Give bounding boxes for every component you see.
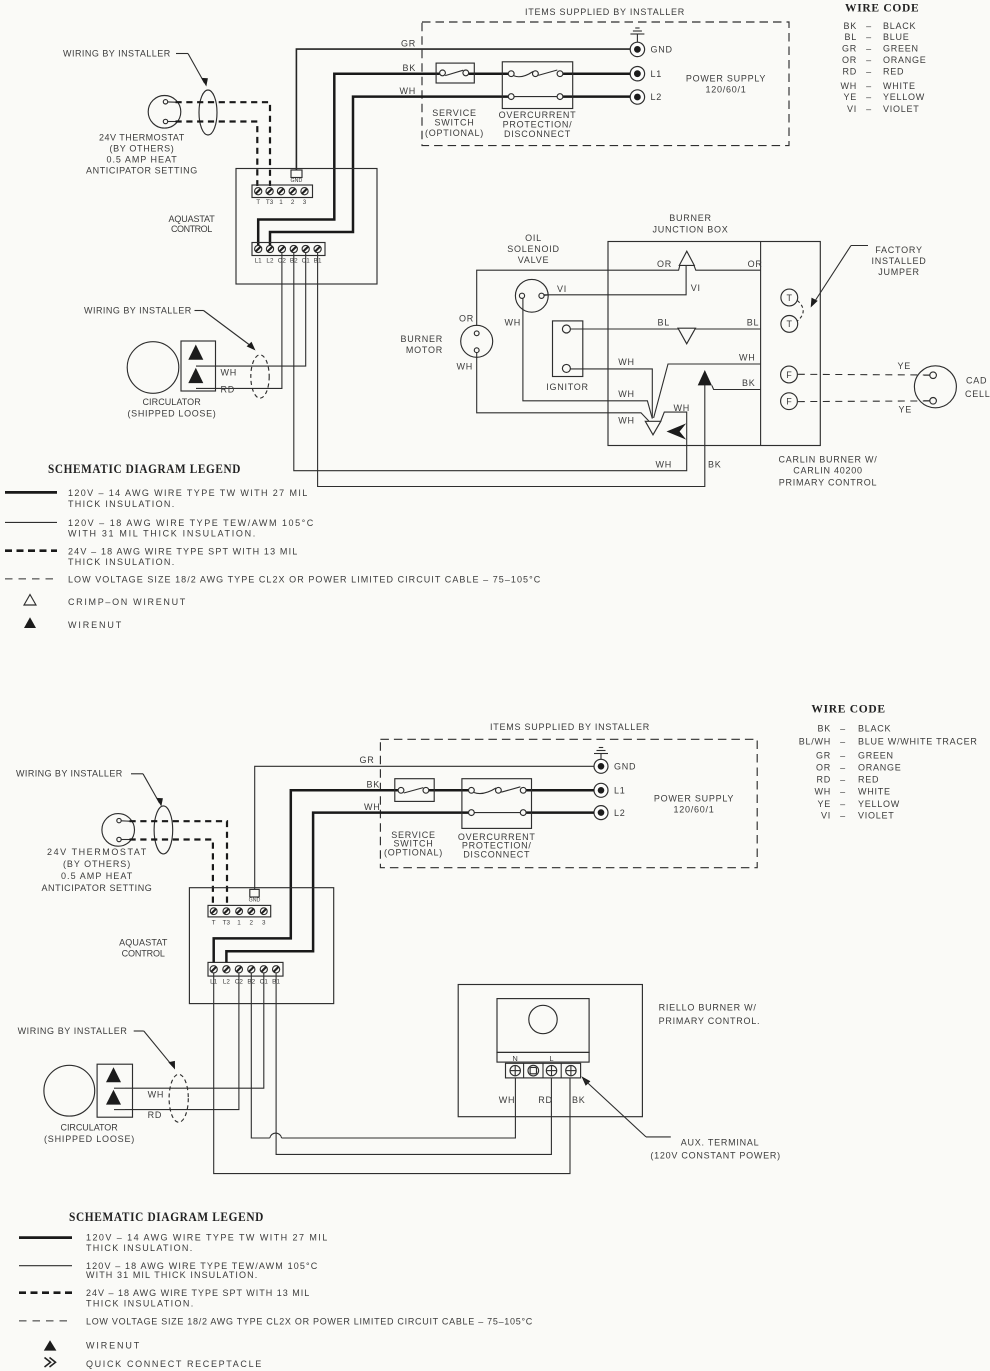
svg-text:GND: GND — [291, 178, 303, 184]
svg-text:YE: YE — [898, 405, 912, 415]
wire WH : ignitor to big wirenut (top) — [570, 369, 652, 419]
svg-text:T: T — [787, 319, 793, 329]
svg-text:120V – 18 AWG WIRE TYPE TEW/AW: 120V – 18 AWG WIRE TYPE TEW/AWM 105°C — [68, 518, 314, 528]
svg-text:GND: GND — [614, 762, 636, 772]
svg-text:L2: L2 — [614, 808, 626, 818]
crimp-on wirenut (big open triangle) WH junction (top) — [645, 421, 661, 435]
svg-text:LOW VOLTAGE SIZE 18/2 AWG TYPE: LOW VOLTAGE SIZE 18/2 AWG TYPE CL2X OR P… — [68, 575, 541, 585]
upper terminal strip T T3 1 2 3 (top) — [252, 185, 313, 198]
svg-text:WHITE: WHITE — [883, 81, 916, 91]
wire BK (bottom) — [214, 790, 398, 963]
circulator (bottom) — [44, 1065, 95, 1116]
svg-text:VIOLET: VIOLET — [858, 811, 895, 821]
legend sample: low voltage dashed thin — [5, 578, 57, 580]
cable ellipse (bottom circulator) — [169, 1074, 188, 1122]
svg-text:WHITE: WHITE — [858, 786, 891, 796]
svg-text:CRIMP–ON WIRENUT: CRIMP–ON WIRENUT — [68, 597, 186, 607]
svg-text:PROTECTION/: PROTECTION/ — [503, 120, 573, 130]
svg-text:WH: WH — [364, 802, 381, 812]
svg-text:GND: GND — [249, 898, 261, 904]
legend symbol: crimp-on wirenut (open triangle) — [24, 595, 36, 606]
terminal screw L (RD) — [546, 1065, 556, 1075]
svg-text:THICK INSULATION.: THICK INSULATION. — [68, 557, 175, 567]
wirenut (filled) on circulator RD (top) — [188, 368, 203, 383]
svg-text:WH: WH — [815, 786, 832, 796]
svg-text:WIRENUT: WIRENUT — [86, 1341, 140, 1351]
svg-text:AQUASTAT: AQUASTAT — [119, 937, 168, 947]
svg-text:–: – — [866, 92, 872, 102]
svg-text:OR: OR — [748, 259, 763, 269]
svg-text:BLACK: BLACK — [883, 21, 916, 31]
svg-text:(OPTIONAL): (OPTIONAL) — [425, 128, 484, 138]
wire GR (top) : aquastat GND to terminal GND — [296, 49, 630, 170]
terminal L2 (top) — [630, 90, 644, 104]
dashed 24V wire to T3 (bottom) — [130, 821, 228, 906]
burner junction box (top) — [608, 242, 820, 446]
quick connect receptacle (filled arrow, left) at WH wirenut (top) — [667, 423, 687, 439]
wire B2 long WH run to burner junction (top) — [294, 253, 687, 471]
label: AUX. TERMINAL (120V CONSTANT POWER) with leader arrow — [581, 1076, 590, 1086]
wire C1 to circulator WH (top) — [216, 253, 306, 367]
svg-text:BK: BK — [708, 460, 722, 470]
wire WH (bottom) — [226, 813, 468, 963]
wirenut (filled) circulator RD (bottom) — [106, 1090, 121, 1105]
svg-text:SWITCH: SWITCH — [435, 118, 475, 128]
ground symbol (bottom) — [594, 748, 608, 760]
svg-text:120/60/1: 120/60/1 — [705, 85, 746, 95]
svg-text:L1: L1 — [255, 258, 263, 265]
GND stub terminal on aquastat (bottom) — [250, 889, 259, 897]
svg-text:YELLOW: YELLOW — [883, 92, 925, 102]
svg-text:JUMPER: JUMPER — [878, 267, 920, 277]
wirenut (filled) circulator WH (bottom) — [106, 1067, 121, 1082]
svg-text:24V THERMOSTAT: 24V THERMOSTAT — [47, 847, 147, 857]
terminal GND (top) — [630, 42, 644, 56]
service switch (bottom) — [395, 779, 434, 802]
crimp-on wirenut (open triangle, down) BL junction (top) — [678, 328, 696, 344]
cable ellipse (top circulator) — [251, 355, 269, 398]
svg-text:QUICK CONNECT RECEPTACLE: QUICK CONNECT RECEPTACLE — [86, 1359, 262, 1369]
svg-text:F: F — [786, 397, 792, 407]
svg-text:1: 1 — [279, 199, 283, 206]
legend sample: 120V 14 AWG thick line — [5, 491, 57, 494]
svg-text:BK: BK — [366, 780, 380, 790]
svg-text:YE: YE — [897, 361, 911, 371]
aquastat control box (bottom) — [189, 888, 333, 1004]
svg-text:T: T — [787, 293, 793, 303]
svg-text:–: – — [840, 750, 846, 760]
svg-text:120V – 14 AWG WIRE TYPE TW WIT: 120V – 14 AWG WIRE TYPE TW WITH 27 MIL — [86, 1233, 328, 1243]
svg-text:VALVE: VALVE — [518, 255, 549, 265]
svg-text:RD: RD — [817, 774, 832, 784]
svg-text:GR: GR — [816, 750, 831, 760]
svg-text:VI: VI — [557, 284, 567, 294]
wire WH (top) : aquastat L2 to overcurrent to L2 — [270, 97, 508, 245]
svg-text:RD: RD — [221, 385, 236, 395]
svg-text:SCHEMATIC DIAGRAM LEGEND: SCHEMATIC DIAGRAM LEGEND — [69, 1210, 264, 1224]
svg-text:RD: RD — [843, 66, 858, 76]
svg-text:L2: L2 — [651, 92, 663, 102]
svg-text:AQUASTAT: AQUASTAT — [169, 214, 216, 224]
svg-text:(SHIPPED LOOSE): (SHIPPED LOOSE) — [44, 1134, 135, 1144]
terminal L1 (top) — [630, 67, 644, 81]
svg-text:–: – — [840, 799, 846, 809]
wire OR : burner motor to junction (top) — [477, 265, 680, 326]
svg-text:IGNITOR: IGNITOR — [546, 382, 589, 392]
wire VI : oil solenoid valve to OR wirenut (top) — [544, 266, 686, 295]
svg-text:BK: BK — [843, 21, 857, 31]
Riello terminal block N - L aux — [506, 1063, 581, 1078]
svg-text:GREEN: GREEN — [883, 43, 919, 53]
upper terminal strip T T3 1 2 3 (bottom) — [208, 905, 271, 917]
wire C2 to circulator RD (top) — [216, 253, 282, 389]
svg-text:CIRCULATOR: CIRCULATOR — [143, 397, 202, 407]
lower terminal strip L1 L2 C2 B2 C1 B1 (bottom) — [208, 962, 283, 976]
svg-text:OR: OR — [842, 55, 857, 65]
svg-text:WITH 31 MIL THICK INSULATION.: WITH 31 MIL THICK INSULATION. — [86, 1270, 258, 1280]
svg-text:CONTROL: CONTROL — [171, 224, 213, 234]
terminal F (upper) on primary control (top) — [781, 366, 798, 383]
svg-text:L1: L1 — [614, 786, 626, 796]
svg-text:ORANGE: ORANGE — [858, 762, 902, 772]
svg-text:N: N — [512, 1054, 518, 1063]
svg-text:WH: WH — [457, 362, 474, 372]
cad cell (top) — [914, 366, 956, 408]
terminal T (lower) on primary control (top) — [781, 316, 798, 333]
svg-text:POWER SUPPLY: POWER SUPPLY — [654, 794, 734, 804]
wire GR (bottom) — [255, 766, 594, 889]
wire L1 to Riello aux BK terminal (bottom) — [214, 973, 570, 1174]
terminal T (upper) on primary control (top) — [781, 289, 798, 306]
svg-text:0.5 AMP HEAT: 0.5 AMP HEAT — [61, 871, 133, 881]
wire BL : ignitor to junction (top) — [570, 328, 678, 330]
svg-text:WIRING BY INSTALLER: WIRING BY INSTALLER — [63, 49, 171, 59]
dashed 24V wire T2 (top) : thermostat to terminal T — [176, 122, 258, 187]
svg-text:–: – — [840, 774, 846, 784]
svg-text:–: – — [866, 81, 872, 91]
svg-text:120/60/1: 120/60/1 — [673, 805, 714, 815]
svg-text:–: – — [840, 786, 846, 796]
power supply dashed box (bottom) — [380, 739, 757, 867]
svg-text:GND: GND — [651, 45, 673, 55]
svg-text:OR: OR — [657, 259, 672, 269]
wire YE (lower) : F to cad cell, dashed — [798, 400, 930, 403]
wire bundle ellipse (bottom thermostat) — [154, 806, 173, 854]
svg-text:WIRE CODE: WIRE CODE — [811, 704, 885, 716]
svg-text:ITEMS SUPPLIED BY INSTALLER: ITEMS SUPPLIED BY INSTALLER — [525, 7, 685, 17]
svg-text:CELL: CELL — [965, 389, 990, 399]
wire YE (upper) : F to cad cell, dashed — [798, 373, 930, 376]
svg-text:BL: BL — [657, 318, 670, 328]
svg-text:THICK INSULATION.: THICK INSULATION. — [86, 1299, 194, 1309]
svg-text:–: – — [866, 66, 872, 76]
svg-text:RED: RED — [858, 774, 879, 784]
svg-text:RD: RD — [148, 1110, 163, 1120]
svg-text:WH: WH — [674, 403, 691, 413]
svg-text:SCHEMATIC DIAGRAM LEGEND: SCHEMATIC DIAGRAM LEGEND — [48, 462, 241, 476]
wire C2 to circulator RD (bottom) — [125, 973, 239, 1110]
svg-text:OVERCURRENT: OVERCURRENT — [499, 110, 577, 120]
svg-text:YE: YE — [843, 92, 857, 102]
svg-text:BURNER: BURNER — [400, 334, 443, 344]
svg-text:–: – — [866, 21, 872, 31]
svg-text:L2: L2 — [223, 979, 231, 986]
legend sample: 120V 18 AWG thin line — [5, 521, 57, 523]
svg-text:WIRING BY INSTALLER: WIRING BY INSTALLER — [84, 306, 192, 316]
svg-text:WH: WH — [221, 368, 238, 378]
svg-text:T: T — [212, 920, 216, 927]
burner motor (top) — [461, 325, 493, 357]
svg-text:(SHIPPED LOOSE): (SHIPPED LOOSE) — [128, 409, 217, 419]
terminal GND (bottom) — [594, 759, 608, 773]
svg-text:BLACK: BLACK — [858, 723, 891, 733]
wire B1 to Riello L terminal RD (bottom) — [276, 973, 551, 1155]
legend sample: 24V dashed thick — [5, 549, 57, 552]
svg-text:ANTICIPATOR SETTING: ANTICIPATOR SETTING — [86, 166, 198, 176]
svg-text:WIRE CODE: WIRE CODE — [845, 3, 919, 15]
svg-text:BK: BK — [572, 1095, 586, 1105]
svg-text:WIRING BY INSTALLER: WIRING BY INSTALLER — [18, 1026, 128, 1036]
legend symbol: quick connect receptacle (double chevron) — [45, 1358, 51, 1368]
svg-text:CONTROL: CONTROL — [122, 949, 166, 959]
svg-text:24V – 18 AWG WIRE TYPE SPT WIT: 24V – 18 AWG WIRE TYPE SPT WITH 13 MIL — [68, 547, 298, 557]
terminal F (lower) on primary control (top) — [781, 393, 798, 410]
svg-text:WH: WH — [618, 357, 635, 367]
terminal screw N (WH) — [510, 1065, 520, 1075]
svg-text:WH: WH — [618, 389, 635, 399]
svg-text:VI: VI — [847, 104, 857, 114]
aquastat control box (top) — [236, 169, 377, 285]
svg-text:MOTOR: MOTOR — [406, 345, 443, 355]
svg-text:2: 2 — [291, 199, 295, 206]
svg-text:WH: WH — [499, 1095, 516, 1105]
svg-text:SERVICE: SERVICE — [432, 108, 477, 118]
svg-text:VIOLET: VIOLET — [883, 104, 920, 114]
wire WH : valve to big wirenut (top) — [523, 298, 652, 418]
GND stub terminal on aquastat (top) — [291, 170, 302, 178]
svg-text:DISCONNECT: DISCONNECT — [504, 129, 571, 139]
svg-text:24V THERMOSTAT: 24V THERMOSTAT — [99, 133, 185, 143]
svg-text:BK: BK — [402, 63, 416, 73]
svg-text:POWER SUPPLY: POWER SUPPLY — [686, 74, 766, 84]
svg-text:OR: OR — [816, 762, 831, 772]
service switch (top) — [436, 63, 474, 83]
svg-text:24V – 18 AWG WIRE TYPE SPT WIT: 24V – 18 AWG WIRE TYPE SPT WITH 13 MIL — [86, 1288, 310, 1298]
svg-text:OR: OR — [459, 314, 474, 324]
svg-text:VI: VI — [821, 811, 831, 821]
svg-text:CIRCULATOR: CIRCULATOR — [61, 1123, 119, 1133]
svg-text:VI: VI — [691, 283, 701, 293]
wire circulator RD (bottom) — [114, 1109, 125, 1111]
svg-text:WH: WH — [148, 1090, 165, 1100]
wire WH : motor to big wirenut (top) — [477, 353, 649, 421]
lower terminal strip L1 L2 C2 B2 C1 B1 (top) — [252, 243, 325, 256]
svg-text:RED: RED — [883, 66, 904, 76]
wirenut (filled arrow, up) BK junction (top) — [698, 370, 712, 385]
dashed 24V wire to T (bottom) — [130, 840, 213, 907]
wire circulator WH (bottom) — [114, 1087, 125, 1089]
terminal screw AUX (BK) — [566, 1065, 576, 1075]
svg-text:L1: L1 — [651, 69, 663, 79]
svg-text:WIRENUT: WIRENUT — [68, 620, 122, 630]
svg-text:BL: BL — [844, 32, 857, 42]
svg-text:–: – — [866, 55, 872, 65]
svg-text:INSTALLED: INSTALLED — [871, 256, 926, 266]
24V thermostat (top) — [148, 96, 181, 129]
svg-text:WH: WH — [400, 86, 417, 96]
svg-text:THICK INSULATION.: THICK INSULATION. — [86, 1243, 193, 1253]
svg-text:BK: BK — [742, 378, 756, 388]
svg-text:CAD: CAD — [966, 376, 987, 386]
svg-text:BLUE: BLUE — [883, 32, 910, 42]
svg-text:120V – 14 AWG WIRE TYPE TW WIT: 120V – 14 AWG WIRE TYPE TW WITH 27 MIL — [68, 488, 308, 498]
wire circulator WH (top) — [196, 365, 216, 367]
terminal (blank, square) — [528, 1065, 539, 1076]
wire BK : junction right compartment (top) — [712, 385, 761, 389]
overcurrent protection / disconnect (bottom) — [462, 779, 532, 829]
oil solenoid valve (top) — [515, 279, 548, 312]
terminal L1 (bottom) — [594, 783, 608, 797]
svg-text:YELLOW: YELLOW — [858, 799, 900, 809]
svg-text:–: – — [866, 43, 872, 53]
legend sample: 120V 14 AWG thick line — [19, 1236, 72, 1239]
svg-text:GR: GR — [360, 755, 375, 765]
control knob circle — [529, 1005, 557, 1033]
svg-text:(120V CONSTANT POWER): (120V CONSTANT POWER) — [650, 1151, 780, 1161]
svg-text:–: – — [866, 32, 872, 42]
svg-text:WH: WH — [618, 416, 635, 426]
svg-text:BL/WH: BL/WH — [799, 736, 831, 746]
wirenut (filled) on circulator WH (top) — [188, 345, 203, 360]
factory installed jumper (dashed arc between T-T) — [797, 301, 803, 322]
wire B2 to Riello N terminal WH, with hop over B1 (bottom) — [251, 973, 269, 1138]
svg-text:–: – — [866, 104, 872, 114]
svg-text:LOW VOLTAGE SIZE 18/2 AWG TYPE: LOW VOLTAGE SIZE 18/2 AWG TYPE CL2X OR P… — [86, 1316, 533, 1326]
svg-text:GR: GR — [842, 43, 857, 53]
wire WH : junction right compartment (top) — [654, 364, 761, 418]
svg-text:L2: L2 — [266, 258, 274, 265]
overcurrent protection / disconnect (top) — [502, 62, 572, 109]
circulator (top) — [127, 342, 179, 394]
svg-text:DISCONNECT: DISCONNECT — [463, 850, 530, 860]
svg-text:3: 3 — [262, 920, 266, 927]
svg-text:–: – — [840, 811, 846, 821]
crimp-on wirenut (open triangle) OR junction (top) — [679, 251, 694, 265]
wire C1 to circulator WH (bottom) — [125, 973, 264, 1088]
svg-text:–: – — [840, 762, 846, 772]
svg-text:AUX. TERMINAL: AUX. TERMINAL — [681, 1138, 760, 1148]
legend sample: low voltage dashed thin — [19, 1320, 72, 1322]
svg-text:(BY OTHERS): (BY OTHERS) — [63, 859, 131, 869]
svg-text:WH: WH — [739, 353, 756, 363]
svg-text:T3: T3 — [266, 199, 274, 206]
svg-text:ORANGE: ORANGE — [883, 55, 927, 65]
svg-text:RD: RD — [538, 1095, 553, 1105]
svg-text:PRIMARY CONTROL: PRIMARY CONTROL — [779, 478, 877, 488]
ignitor (top) — [553, 321, 583, 377]
24V thermostat (bottom) — [102, 814, 135, 847]
svg-text:ITEMS SUPPLIED BY INSTALLER: ITEMS SUPPLIED BY INSTALLER — [490, 722, 650, 732]
legend sample: 24V dashed thick — [19, 1291, 72, 1294]
Riello primary control box — [497, 999, 589, 1053]
svg-text:ANTICIPATOR SETTING: ANTICIPATOR SETTING — [42, 883, 153, 893]
svg-text:BLUE W/WHITE TRACER: BLUE W/WHITE TRACER — [858, 736, 978, 746]
dashed 24V wire T (top) : thermostat to terminal T3 — [176, 102, 271, 186]
svg-text:0.5 AMP HEAT: 0.5 AMP HEAT — [107, 155, 178, 165]
legend sample: 120V 18 AWG thin line — [19, 1265, 72, 1267]
svg-text:RIELLO BURNER W/: RIELLO BURNER W/ — [659, 1003, 757, 1013]
svg-text:SOLENOID: SOLENOID — [507, 244, 560, 254]
svg-text:–: – — [840, 736, 846, 746]
terminal L2 (bottom) — [594, 806, 608, 820]
svg-text:OIL: OIL — [525, 233, 542, 243]
wire bundle ellipse (top thermostat) — [199, 90, 217, 135]
Riello burner outer box — [458, 985, 642, 1117]
wire B1 long BK run to burner junction (top) — [318, 253, 705, 487]
legend symbol: wirenut (filled triangle) — [44, 1340, 57, 1350]
svg-text:FACTORY: FACTORY — [875, 245, 922, 255]
svg-text:WITH 31 MIL THICK INSULATION.: WITH 31 MIL THICK INSULATION. — [68, 529, 256, 539]
svg-text:GREEN: GREEN — [858, 750, 894, 760]
svg-text:WIRING BY INSTALLER: WIRING BY INSTALLER — [16, 769, 123, 779]
svg-text:–: – — [840, 723, 846, 733]
svg-text:WH: WH — [505, 317, 522, 327]
svg-text:CARLIN BURNER W/: CARLIN BURNER W/ — [778, 455, 877, 465]
svg-text:PRIMARY CONTROL.: PRIMARY CONTROL. — [659, 1016, 761, 1026]
svg-text:(OPTIONAL): (OPTIONAL) — [384, 848, 443, 858]
svg-text:CARLIN 40200: CARLIN 40200 — [793, 466, 863, 476]
svg-text:BL: BL — [747, 318, 760, 328]
svg-text:JUNCTION BOX: JUNCTION BOX — [652, 225, 728, 235]
svg-text:(BY OTHERS): (BY OTHERS) — [110, 144, 175, 154]
svg-text:WH: WH — [656, 459, 673, 469]
svg-text:T: T — [256, 199, 260, 206]
svg-text:BK: BK — [817, 723, 831, 733]
svg-text:F: F — [786, 370, 792, 380]
svg-text:THICK INSULATION.: THICK INSULATION. — [68, 499, 175, 509]
svg-text:GR: GR — [401, 39, 416, 49]
svg-text:BURNER: BURNER — [669, 213, 712, 223]
power supply dashed box (top) — [422, 22, 789, 146]
svg-text:1: 1 — [237, 920, 241, 927]
svg-text:YE: YE — [817, 799, 831, 809]
wire circulator RD (top) — [196, 387, 216, 389]
svg-text:T3: T3 — [223, 920, 231, 927]
legend symbol: wirenut (filled triangle) — [24, 617, 36, 628]
svg-text:WH: WH — [841, 81, 858, 91]
ground symbol (top) — [630, 28, 644, 42]
svg-text:2: 2 — [249, 920, 253, 927]
svg-text:L: L — [549, 1054, 553, 1063]
wire BK (top) : aquastat L1 to service switch to L1 — [258, 74, 439, 245]
svg-text:3: 3 — [303, 199, 307, 206]
